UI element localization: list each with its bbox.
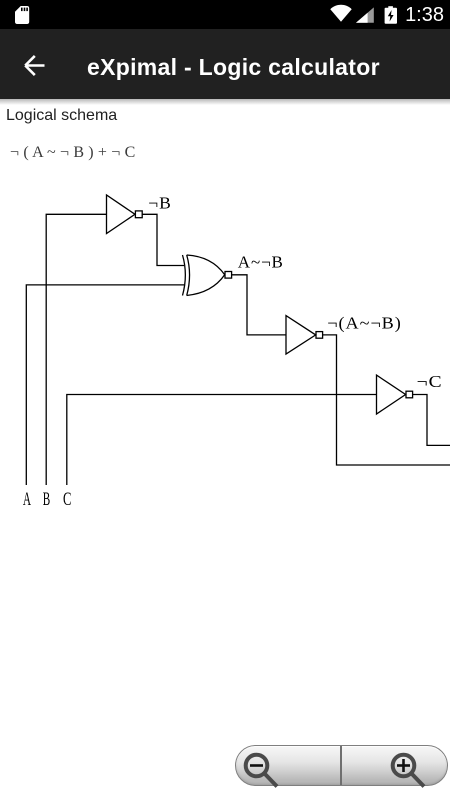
circuit schematic svg [0, 0, 450, 560]
inverter U4 (NOT C) [377, 375, 406, 414]
svg-text:B: B [43, 490, 51, 510]
zoom controls [235, 745, 448, 786]
sd card icon [0, 0, 60, 29]
inverter U3 [286, 316, 316, 354]
svg-text:¬(A~¬B): ¬(A~¬B) [327, 314, 402, 333]
wire input A [26, 285, 184, 485]
bubble U2 [225, 272, 232, 279]
inverter U1 (NOT B) [107, 195, 136, 234]
wire U3 out, down and right off-screen [323, 335, 450, 465]
wifi icon [325, 0, 360, 29]
status bar [0, 0, 450, 29]
svg-text:¬B: ¬B [148, 194, 172, 213]
app bar [0, 29, 450, 99]
xnor gate U2 body [187, 255, 225, 296]
wire input C [67, 395, 377, 486]
svg-text:¬C: ¬C [417, 372, 443, 391]
wire input B [46, 214, 106, 485]
svg-text:C: C [63, 490, 72, 510]
bubble U4 [406, 391, 413, 398]
zoom out icon [235, 745, 448, 790]
bubble U3 [316, 332, 323, 339]
wire U2 out to U3 [232, 275, 286, 335]
battery icon [380, 0, 405, 29]
svg-text:A: A [23, 490, 32, 510]
wire U1 out to XNOR upper input [142, 214, 184, 265]
zoom in icon [393, 755, 424, 787]
svg-text:A~¬B: A~¬B [238, 253, 284, 272]
cellular signal icon [352, 0, 382, 29]
content [6, 107, 117, 125]
bubble U1 [135, 211, 142, 218]
wire U4 out, down and right off-screen [413, 395, 450, 446]
back arrow [0, 29, 60, 99]
xnor gate U2 back arcs [183, 255, 186, 296]
